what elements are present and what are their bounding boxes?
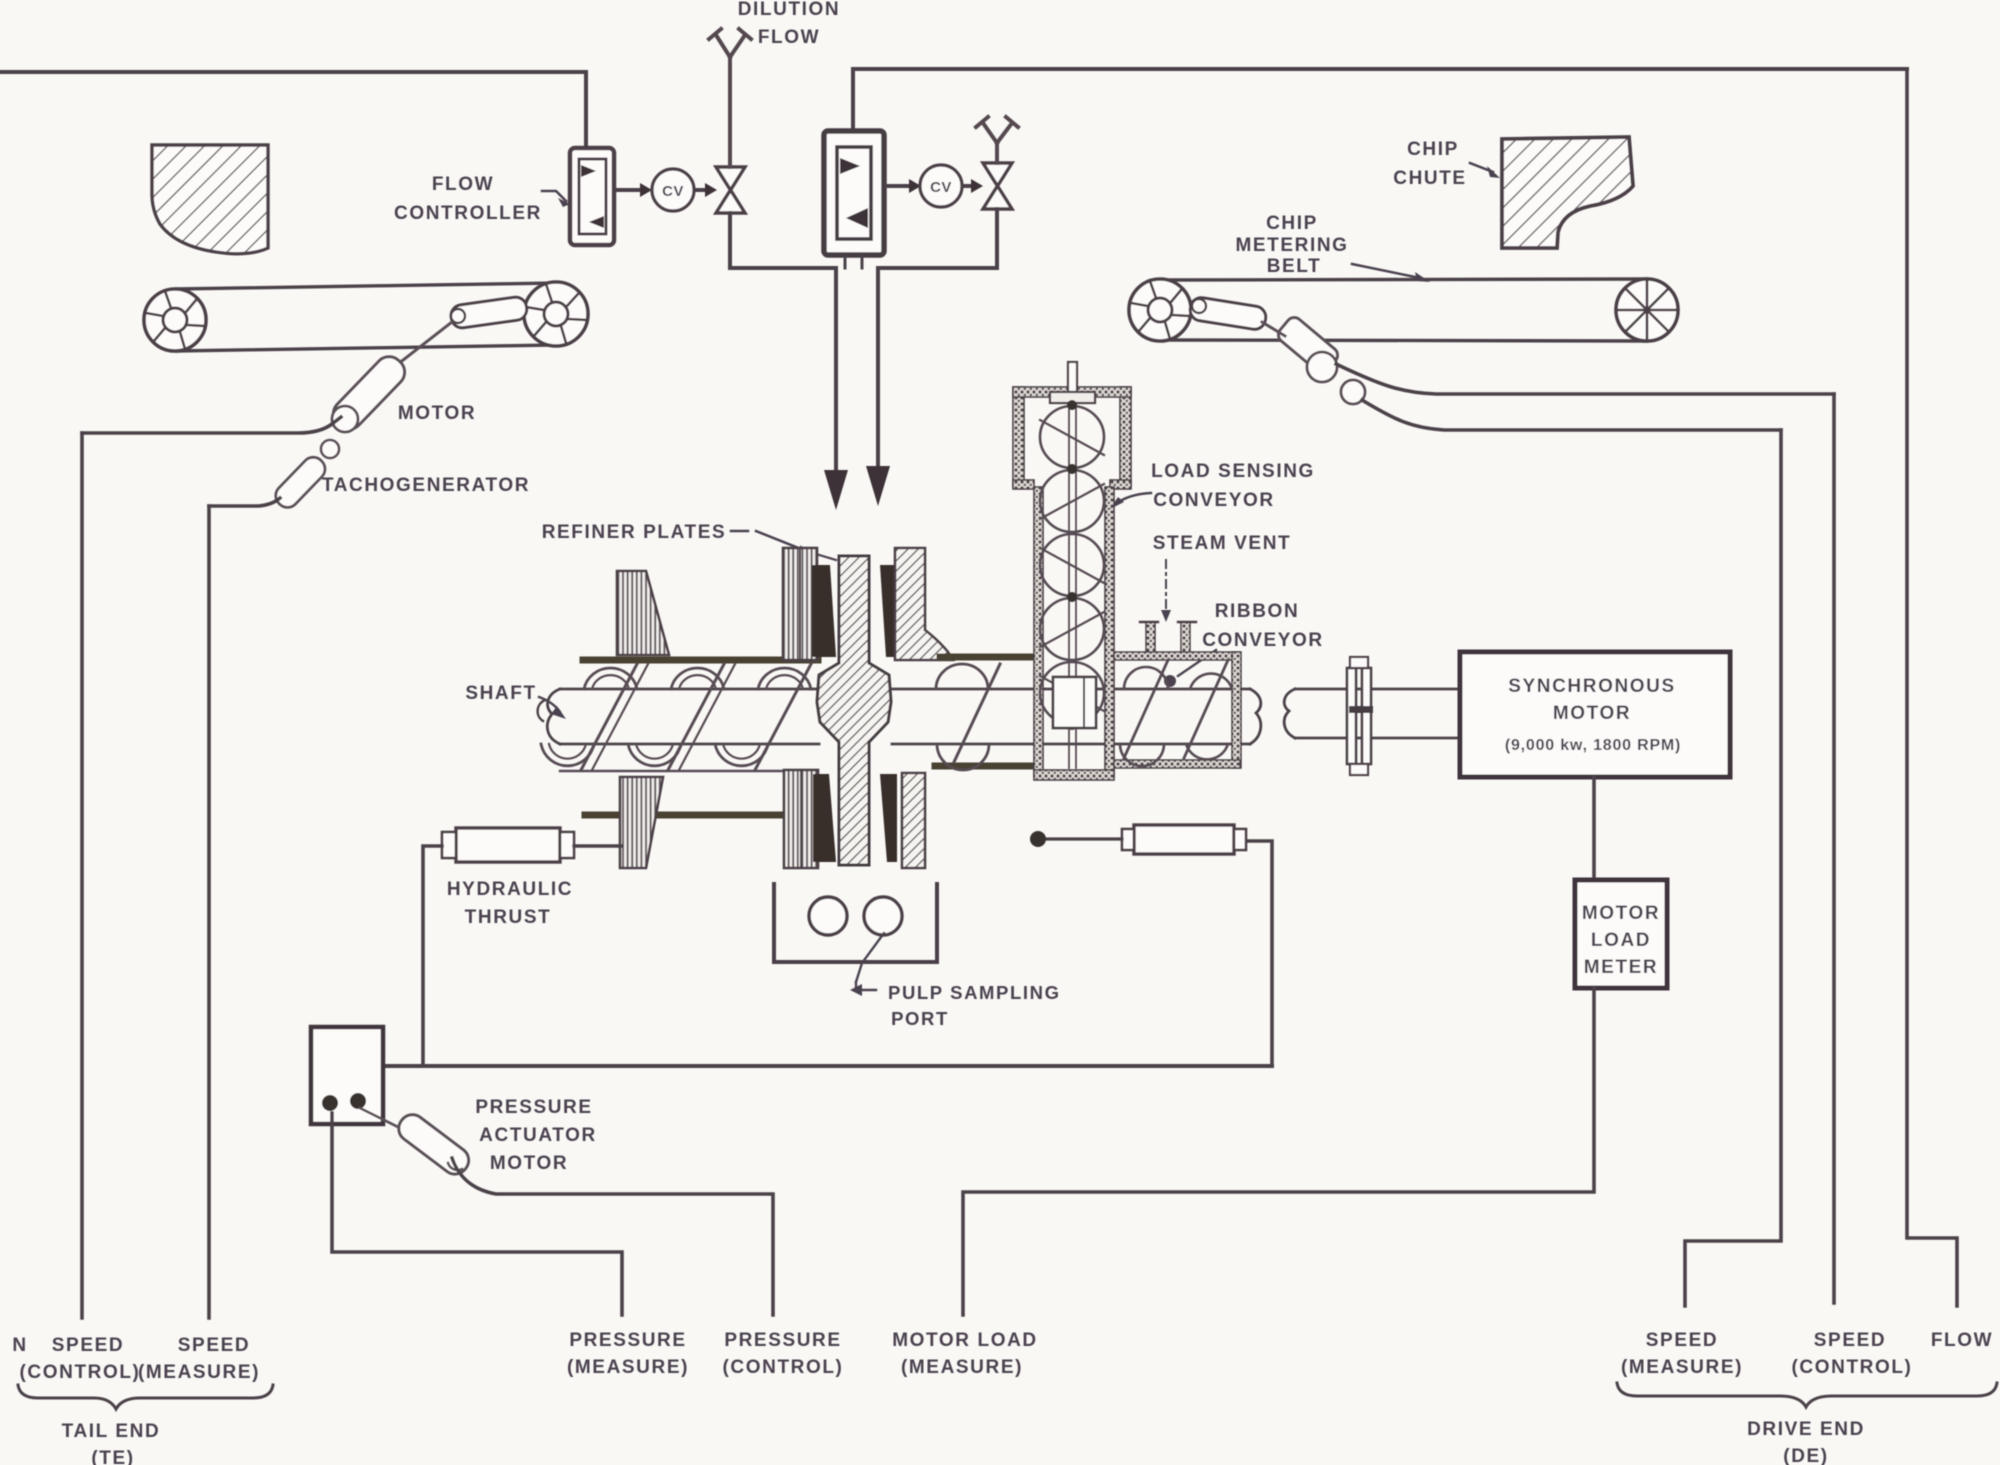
svg-text:METER: METER — [1584, 957, 1659, 978]
crank roller to motor — [398, 322, 452, 364]
svg-text:MOTOR: MOTOR — [1553, 703, 1631, 724]
svg-text:PRESSURE: PRESSURE — [569, 1330, 686, 1351]
label DRIVE END (DE) — [1747, 1419, 1865, 1465]
feed screw flight diagonals left — [581, 664, 811, 770]
label TACHOGENERATOR — [322, 475, 530, 496]
svg-text:PULP SAMPLING: PULP SAMPLING — [888, 982, 1061, 1003]
vertical screw of load sensing conveyor — [1040, 400, 1104, 768]
svg-text:DRIVE END: DRIVE END — [1747, 1419, 1865, 1440]
control valve CV1 circle — [652, 169, 694, 211]
svg-text:CHIP: CHIP — [1266, 213, 1318, 234]
label SPEED (MEASURE) drive — [1621, 1330, 1743, 1378]
flow trunk (drive end) — [1907, 69, 1957, 1306]
label PRESSURE (MEASURE) — [567, 1330, 689, 1378]
left feed conveyor belt — [176, 283, 556, 351]
drive shaft to synchronous motor — [1284, 689, 1460, 738]
svg-text:SYNCHRONOUS: SYNCHRONOUS — [1508, 676, 1676, 697]
rotor disc (hatched center) — [817, 556, 891, 865]
dilution arrow right into refiner — [866, 268, 890, 506]
wire speed measure to tachogenerator — [209, 498, 280, 506]
chip metering belt lines — [1160, 279, 1647, 341]
svg-text:LOAD SENSING: LOAD SENSING — [1151, 461, 1315, 482]
dilution arrow left into refiner — [824, 268, 848, 510]
tower bearing box — [1053, 677, 1096, 728]
belt motor coupling (right) — [1262, 314, 1365, 404]
wire hydraulic cylinder to pressure loop — [423, 846, 442, 1064]
stationary refiner plate left lower (striped column) — [784, 770, 818, 868]
svg-text:N: N — [12, 1335, 27, 1356]
label STEAM VENT — [1153, 533, 1291, 622]
speed measure trunk (tail end) — [207, 506, 211, 1318]
pressure actuator box — [311, 1027, 383, 1124]
refiner casing lower right — [935, 763, 1035, 770]
speed control trunk (tail end) — [80, 433, 84, 1318]
svg-text:SHAFT: SHAFT — [465, 683, 536, 704]
svg-text:(CONTROL): (CONTROL) — [20, 1362, 141, 1383]
label CHIP CHUTE — [1393, 139, 1500, 189]
hydraulic thrust cylinder — [442, 828, 574, 862]
svg-text:TAIL END: TAIL END — [62, 1421, 161, 1442]
svg-text:CHUTE: CHUTE — [1393, 168, 1466, 189]
label DILUTION FLOW — [738, 0, 841, 48]
svg-text:(DE): (DE) — [1783, 1446, 1828, 1465]
label SHAFT — [465, 683, 566, 719]
wire speed control to motor — [82, 417, 341, 433]
right thrust sensor cylinder — [1122, 825, 1246, 854]
dilution flow pipe with Y vent — [709, 29, 751, 167]
refiner casing lower left — [585, 812, 790, 819]
svg-text:CHIP: CHIP — [1407, 139, 1459, 160]
shaft coupling flanges — [1347, 657, 1373, 775]
feed screw flights left (lower arcs) — [541, 744, 790, 771]
label REFINER PLATES — [542, 522, 836, 560]
chip chute left (hatched) — [152, 145, 268, 254]
arrow FR2 to CV2 — [886, 179, 921, 193]
refiner gap dark band lower left — [813, 774, 836, 862]
svg-text:FLOW: FLOW — [432, 174, 494, 195]
wire pressure control from actuator motor — [452, 1158, 773, 1315]
refiner casing upper left — [583, 657, 818, 664]
pulp sampling box — [774, 884, 937, 962]
left conveyor drive roller — [450, 296, 528, 329]
wire belt speed measure to drive end — [1362, 400, 1781, 430]
wire synchronous motor to load meter — [1592, 777, 1596, 880]
wire pressure measure from actuator box — [332, 1113, 622, 1315]
svg-text:RIBBON: RIBBON — [1215, 601, 1300, 622]
svg-text:BELT: BELT — [1267, 256, 1322, 277]
wire motor load measure — [963, 988, 1594, 1315]
chip belt tail pulley — [1129, 279, 1191, 341]
arrow CV2 to valve V2 — [963, 179, 983, 193]
svg-text:MOTOR: MOTOR — [1582, 903, 1660, 924]
svg-text:CONVEYOR: CONVEYOR — [1202, 630, 1324, 651]
discharge screw arcs right — [936, 664, 1000, 770]
flow controller FC1 (rotameter) — [570, 148, 614, 245]
refiner casing upper right — [940, 654, 1035, 661]
riser to right thrust sensor — [1246, 841, 1272, 1066]
coupling motor-tacho — [321, 406, 358, 458]
svg-text:(MEASURE): (MEASURE) — [1621, 1357, 1743, 1378]
flow recorder FR2 (rotameter) — [824, 131, 884, 255]
label PULP SAMPLING PORT — [850, 933, 1061, 1029]
svg-text:SPEED: SPEED — [52, 1335, 124, 1356]
svg-text:HYDRAULIC: HYDRAULIC — [447, 879, 573, 900]
chip belt head pulley — [1616, 279, 1678, 341]
pressure loop horizontal wire — [384, 1064, 1272, 1068]
wire hydraulic cylinder to refiner plate — [574, 844, 622, 847]
feed screw shaft left — [538, 689, 819, 744]
label MOTOR (left) — [398, 403, 476, 424]
brace tail end — [18, 1385, 273, 1409]
label TAIL END (TE) — [62, 1421, 161, 1465]
svg-text:CONVEYOR: CONVEYOR — [1153, 490, 1275, 511]
svg-text:CONTROLLER: CONTROLLER — [394, 203, 542, 224]
load sensing conveyor tower lower section walls — [1034, 487, 1114, 780]
refiner support plate upper left (striped) — [617, 571, 669, 655]
svg-text:REFINER PLATES: REFINER PLATES — [542, 522, 727, 543]
svg-text:DILUTION: DILUTION — [738, 0, 841, 20]
rotameter bottom stub — [845, 256, 862, 268]
brace drive end — [1617, 1383, 1997, 1407]
svg-text:(MEASURE): (MEASURE) — [567, 1357, 689, 1378]
motor load meter box — [1575, 880, 1667, 988]
svg-text:MOTOR: MOTOR — [398, 403, 476, 424]
tower top shaft stub — [1050, 362, 1095, 403]
discharge screw shaft right — [892, 689, 1261, 744]
svg-text:TACHOGENERATOR: TACHOGENERATOR — [322, 475, 530, 496]
refiner support plate lower left (striped) — [620, 777, 663, 868]
svg-text:CV: CV — [930, 179, 952, 196]
svg-text:CV: CV — [662, 183, 684, 200]
label FLOW drive — [1931, 1330, 1993, 1351]
svg-text:STEAM VENT: STEAM VENT — [1153, 533, 1291, 554]
svg-text:(CONTROL): (CONTROL) — [723, 1357, 844, 1378]
label SPEED (CONTROL) drive — [1792, 1330, 1913, 1378]
wire top-left feed to flow controller — [0, 72, 586, 149]
chip belt drive roller — [1189, 296, 1268, 331]
label HYDRAULIC THRUST — [447, 879, 573, 928]
belt drive motor (left) — [328, 351, 411, 435]
left conveyor tail pulley — [144, 289, 206, 351]
speed measure trunk (drive end) — [1685, 430, 1781, 1306]
pulp sampling port holes — [809, 897, 902, 935]
label PRESSURE (CONTROL) — [723, 1330, 844, 1378]
label CHIP METERING BELT — [1235, 213, 1430, 282]
label SPEED (MEASURE) tail — [138, 1335, 260, 1383]
svg-text:PRESSURE: PRESSURE — [475, 1097, 592, 1118]
svg-text:(9,000 kw, 1800 RPM): (9,000 kw, 1800 RPM) — [1505, 737, 1681, 754]
ribbon conveyor casing top — [1114, 652, 1240, 660]
wire belt speed control to drive end — [1336, 364, 1834, 394]
load sensing conveyor tower upper section walls — [1013, 387, 1131, 489]
ribbon screw flights — [1120, 660, 1232, 766]
refiner gap dark band lower right — [880, 774, 897, 862]
svg-text:MOTOR LOAD: MOTOR LOAD — [892, 1330, 1037, 1351]
chip chute right (hatched) — [1502, 137, 1633, 248]
svg-text:(MEASURE): (MEASURE) — [138, 1362, 260, 1383]
svg-text:PORT: PORT — [891, 1008, 949, 1029]
svg-text:THRUST: THRUST — [465, 907, 552, 928]
right sensor probe stem — [1030, 831, 1122, 847]
speed control trunk (drive end) — [1832, 394, 1836, 1303]
Y vent above valve V2 — [976, 117, 1018, 163]
svg-text:ACTUATOR: ACTUATOR — [479, 1125, 597, 1146]
label FLOW CONTROLLER — [394, 174, 570, 224]
svg-text:FLOW: FLOW — [1931, 1330, 1993, 1351]
svg-text:PRESSURE: PRESSURE — [724, 1330, 841, 1351]
feed screw flights left (upper arcs) — [584, 668, 811, 689]
control valve CV2 circle — [920, 165, 962, 207]
label PRESSURE ACTUATOR MOTOR — [475, 1097, 596, 1174]
arrow CV1 to valve V1 — [695, 183, 717, 197]
arrow FC1 to CV1 — [615, 183, 652, 197]
svg-text:FLOW: FLOW — [758, 27, 820, 48]
svg-text:MOTOR: MOTOR — [490, 1153, 568, 1174]
svg-text:SPEED: SPEED — [1646, 1330, 1718, 1351]
label RIBBON CONVEYOR — [1164, 601, 1324, 687]
valve V1 (dilution inlet valve) — [716, 167, 745, 213]
svg-text:(MEASURE): (MEASURE) — [901, 1357, 1023, 1378]
ribbon conveyor casing right wall — [1232, 652, 1241, 768]
svg-text:LOAD: LOAD — [1591, 930, 1651, 951]
label MOTOR LOAD (MEASURE) — [892, 1330, 1037, 1378]
pressure actuator motor cylinder — [360, 1108, 474, 1179]
wire valve V2 down to right dilution drop — [878, 209, 997, 268]
stationary refiner plate left (striped column) — [783, 548, 817, 660]
steam vent chimney — [1140, 622, 1196, 656]
stationary refiner plate right lower (hatched) — [902, 773, 925, 868]
wire valve V1 down to left dilution drop — [730, 213, 836, 268]
tachogenerator cylinder — [271, 453, 329, 512]
refiner gap dark band upper left — [812, 565, 836, 657]
wire top-right feed to flow recorder — [853, 69, 1907, 131]
valve V2 (dilution valve) — [983, 163, 1012, 209]
synchronous motor box — [1460, 652, 1730, 777]
label LOAD SENSING CONVEYOR — [1110, 461, 1315, 511]
stationary refiner plate right upper (hatched) — [895, 548, 953, 660]
svg-text:(CONTROL): (CONTROL) — [1792, 1357, 1913, 1378]
ribbon conveyor casing bottom — [1114, 760, 1240, 768]
label N SPEED (CONTROL) — [12, 1335, 140, 1383]
svg-text:SPEED: SPEED — [1814, 1330, 1886, 1351]
svg-text:(TE): (TE) — [91, 1448, 134, 1465]
svg-text:SPEED: SPEED — [178, 1335, 250, 1356]
left conveyor head pulley — [524, 282, 588, 346]
refiner gap dark band upper right — [880, 565, 897, 657]
svg-text:METERING: METERING — [1235, 235, 1348, 256]
